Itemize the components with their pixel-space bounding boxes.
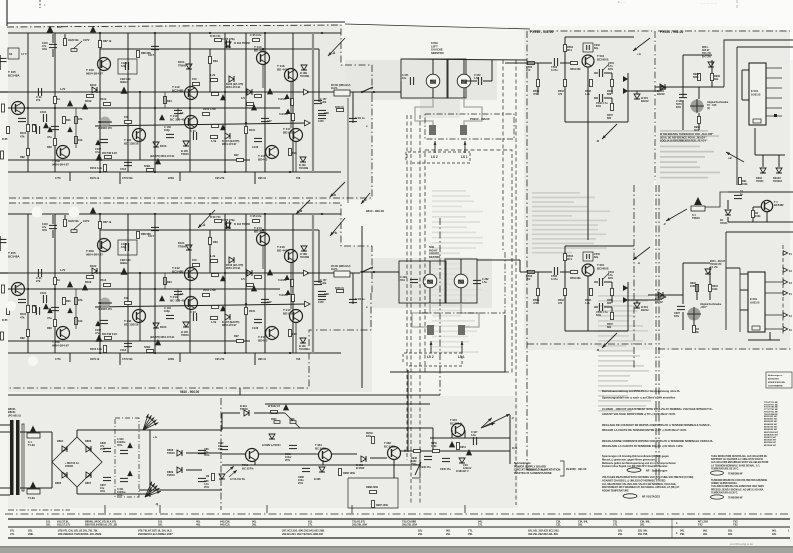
extra cap b (ch2) [35, 307, 37, 315]
svg-text:29.2%: 29.2% [331, 269, 337, 271]
svg-text:D804: D804 [57, 439, 64, 443]
dash-dot bottom border 901 [658, 348, 793, 350]
svg-text:R,30: R,30 [512, 447, 518, 450]
svg-text:1.5u: 1.5u [474, 77, 479, 80]
svg-text:10k: 10k [78, 319, 83, 323]
extra resistor d (ch1) [237, 159, 244, 162]
zener TR04Z [705, 269, 711, 274]
triangle ps a [283, 404, 289, 410]
terminal block LS1 upper [460, 125, 467, 135]
inductor L box (ch2) [334, 271, 350, 277]
svg-text:T7L: T7L [468, 529, 473, 533]
resistor R131 (ch1) [245, 127, 248, 134]
diode D809 [177, 467, 182, 473]
svg-text:B504/809 967: B504/809 967 [764, 423, 778, 426]
svg-text:C105 270p: C105 270p [222, 218, 235, 222]
resistor R154 (ch2) [203, 294, 210, 297]
capacitor C506 T 501 [598, 94, 600, 102]
IC E501 [749, 63, 766, 125]
transistor T 110 (ch1) [185, 116, 198, 129]
svg-text:C779 52k: C779 52k [122, 177, 133, 180]
resistor R150 (ch1) [337, 109, 344, 112]
cap bottom b (ch2) [124, 342, 132, 344]
capacitor C901 [679, 93, 687, 95]
svg-text:CON RISERVA: CON RISERVA [768, 385, 783, 388]
resistor R504 T 501 [564, 45, 567, 52]
svg-text:1/V: 1/V [241, 277, 245, 281]
svg-text:29L: 29L [158, 523, 163, 527]
svg-text:3.3u: 3.3u [471, 434, 476, 437]
svg-text:1u: 1u [740, 193, 743, 196]
table dash-dot rule [5, 513, 790, 515]
svg-text:C779 52k: C779 52k [122, 358, 133, 361]
table tick marks [671, 519, 673, 538]
wire X vertical [407, 370, 409, 452]
svg-text:D805: D805 [55, 481, 62, 485]
svg-text:TR040B: TR040B [300, 256, 309, 259]
wire ch2 to ps [239, 388, 241, 395]
svg-text:R83: R83 [47, 145, 52, 149]
wire vertical 7 (ch2) [245, 214, 247, 353]
svg-text:90L: 90L [772, 529, 777, 533]
svg-text:9654-172.91: 9654-172.91 [226, 266, 241, 270]
svg-text:12 V0.011 5G: 12 V0.011 5G [230, 478, 245, 481]
svg-text:9654-172.97: 9654-172.97 [222, 323, 237, 327]
wire vertical 2 (ch1) [99, 33, 101, 172]
svg-text:TENSIONI MISURATE CON VOLTMETR: TENSIONI MISURATE CON VOLTMETRO GRUNDIG [711, 479, 767, 482]
block separator double dash-dot [633, 185, 635, 370]
wire ps top rail [222, 412, 240, 414]
svg-text:47u: 47u [95, 331, 100, 335]
svg-text:R112: R112 [100, 278, 107, 282]
wire diodes up [762, 155, 764, 167]
inductor L box (ch1) [334, 90, 350, 96]
wire top supply rail (ch2) [8, 213, 341, 215]
resistor R951 [457, 443, 460, 450]
extra triangle f (ch2) [43, 303, 49, 309]
svg-text:D5 901 (9650-92.2): D5 901 (9650-92.2) [331, 85, 351, 87]
svg-text:BC548A: BC548A [8, 74, 20, 78]
elcap box dashdot [115, 418, 139, 497]
wire vertical short b (ch2) [209, 230, 211, 273]
svg-text:R97: R97 [234, 334, 239, 338]
svg-text:T1.6A: T1.6A [28, 443, 35, 447]
diode D808 [177, 450, 182, 456]
wire bridge bottom [76, 487, 78, 494]
resistor R123 (ch1) [211, 79, 218, 82]
resistor R810 [212, 474, 215, 481]
svg-text:TRA: TRA [400, 279, 405, 282]
capacitor C940 [120, 449, 128, 451]
svg-text:R150 10: R150 10 [335, 288, 345, 290]
transistor T983 [388, 447, 401, 460]
svg-text:27L: 27L [308, 523, 313, 527]
svg-text:94L: 94L [680, 529, 685, 533]
svg-text:D103: D103 [160, 325, 167, 329]
svg-text:C 94: C 94 [190, 310, 196, 314]
svg-text:C 151 1u: C 151 1u [355, 299, 365, 301]
svg-text:27L: 27L [478, 523, 483, 527]
wire ps vertical right [509, 438, 511, 464]
capacitor C94 (ch2) [192, 313, 194, 321]
svg-text:BC 548B: BC 548B [384, 444, 395, 448]
wire ps net1 [222, 453, 245, 455]
svg-text:529Ω: 529Ω [144, 345, 150, 349]
diode D10B (ch2) [301, 246, 307, 251]
svg-text:. . . . . . . . . . . . .: . . . . . . . . . . . . . [700, 2, 717, 5]
svg-text:W 8102 AT: W 8102 AT [268, 405, 281, 408]
svg-text:DESTRO: DESTRO [429, 255, 440, 259]
svg-text:(1): (1) [707, 107, 710, 110]
svg-text:C117: C117 [148, 53, 155, 57]
wire vertical partial c (ch1) [318, 49, 320, 102]
svg-text:C 94: C 94 [190, 129, 196, 133]
svg-text:MODIFICATIONS: MODIFICATIONS [768, 381, 785, 384]
svg-text:B4212: B4212 [641, 99, 649, 103]
capacitor C502 box T 601 [583, 252, 593, 261]
svg-text:C95 279: C95 279 [215, 177, 225, 180]
svg-text:BD442: BD442 [258, 339, 268, 343]
arrow -A ch2 [198, 210, 215, 228]
diode D103 (ch2) [153, 323, 159, 328]
resistor R152 (ch2) [104, 346, 107, 353]
transistor T 213 (ch2) [185, 297, 198, 310]
dash-dot box conn lower [422, 250, 505, 313]
svg-text:TR040: TR040 [167, 473, 175, 477]
svg-text:40%: 40% [100, 490, 106, 493]
wire 901 in [655, 86, 683, 88]
svg-text:27L: 27L [613, 523, 618, 527]
resistor R502 T 501 [564, 80, 567, 87]
svg-text:TR060: TR060 [178, 63, 187, 67]
resistor R143 (ch1) [247, 103, 254, 106]
wire long vertical a [347, 98, 349, 203]
svg-text:BC 328-40: BC 328-40 [170, 118, 185, 122]
svg-text:9654-172.91: 9654-172.91 [226, 85, 241, 89]
svg-text:Δ D982 a-TR044: Δ D982 a-TR044 [262, 444, 281, 447]
diode D164 (ch2) [225, 223, 231, 228]
wire T1 net [705, 192, 728, 207]
svg-text:R131: R131 [249, 309, 256, 313]
svg-text:NF VOLTAGES: NF VOLTAGES [642, 495, 660, 499]
capacitor C500 T 501 [553, 58, 555, 66]
wire vertical 5 (ch2) [189, 214, 191, 353]
svg-text:96 k: 96 k [567, 48, 573, 52]
svg-text:R900: R900 [271, 419, 277, 421]
transistor T 108 (ch1) [57, 146, 70, 159]
speaker box outline upper 2 [447, 59, 466, 98]
resistor R123 (ch2) [211, 260, 218, 263]
svg-text:24/7V: 24/7V [83, 39, 90, 42]
svg-text:R117/W 0.22: R117/W 0.22 [102, 332, 117, 336]
svg-text:925Ω: 925Ω [168, 177, 174, 180]
power dash-dot vertical 2 [439, 218, 441, 395]
resistor R507 T 601 [611, 313, 614, 320]
wire vertical 6 (ch2) [224, 214, 226, 353]
bridge rectifier outline [52, 437, 102, 487]
transistor T 212 (ch2) [185, 268, 198, 281]
sub box [348, 478, 398, 508]
resistor R604 [709, 285, 712, 292]
resistor R133 (ch1) [255, 95, 262, 98]
resistor R117 (ch1) [105, 156, 112, 159]
resistor R107 (ch1) [75, 137, 78, 144]
svg-text:R63: R63 [213, 59, 218, 63]
wire mid rail (ch1) [8, 91, 307, 93]
cap C117 (ch2) [151, 226, 159, 228]
svg-text:PRESSO, SENZA SEGNALE, AD (NF): PRESSO, SENZA SEGNALE, AD (NF) E AD UNA [711, 488, 764, 491]
diode D103 (ch1) [153, 142, 159, 147]
svg-text:BD442: BD442 [258, 158, 268, 162]
dash-dot box conn upper [425, 114, 514, 139]
transistor T 111 (ch1) [133, 129, 146, 142]
svg-text:1.5k: 1.5k [211, 320, 217, 324]
svg-text:9V.9030 - 091.00: 9V.9030 - 091.00 [566, 467, 587, 471]
capacitor C502 box T 501 [583, 43, 593, 52]
svg-text:D 984 B7 V: D 984 B7 V [456, 470, 469, 473]
svg-text:R154 1.5M: R154 1.5M [203, 107, 216, 111]
svg-text:R96 44: R96 44 [258, 358, 267, 361]
diode D102 (ch2) [92, 268, 97, 274]
wire emitter T 501 [587, 67, 589, 122]
capacitor C101 (ch1) [42, 114, 44, 122]
resistor R986 [339, 469, 342, 476]
diode B501 input [660, 84, 665, 90]
svg-text:R87 1k: R87 1k [103, 220, 112, 224]
resistor R905 [698, 117, 701, 124]
capacitor C201 [410, 278, 418, 280]
svg-text:100p: 100p [164, 128, 170, 132]
svg-text:T92: T92 [698, 523, 703, 527]
svg-text:C117: C117 [148, 234, 155, 238]
diode D1 [725, 210, 731, 215]
wire transformer out2 [20, 487, 52, 489]
svg-text:92L: 92L [728, 532, 733, 536]
LS2 terminal lower [430, 341, 432, 353]
cap input (ch1) [37, 88, 39, 96]
wire rail 4 (ch2) [8, 288, 280, 290]
svg-text:R87: R87 [57, 25, 62, 29]
svg-text:C97: C97 [267, 119, 272, 123]
capacitor C808 [198, 449, 206, 451]
capacitor C120 box (ch2) [118, 240, 137, 255]
extra resistor e (ch1) [289, 149, 292, 156]
LS1 terminal lower [461, 341, 463, 353]
svg-text:BC 557%: BC 557% [242, 466, 254, 470]
fuse Si802 [29, 482, 36, 489]
svg-text:B 0560: B 0560 [356, 466, 365, 470]
svg-text:39kHz: 39kHz [120, 80, 128, 84]
white punch hole d [28, 356, 38, 366]
resistor R506 T 501 [611, 80, 614, 87]
block 501 bottom dashdot [527, 343, 652, 345]
extra resistor c (ch2) [27, 330, 30, 337]
svg-text:9810 - 906.00: 9810 - 906.00 [180, 390, 200, 394]
svg-text:R179 1k: R179 1k [90, 358, 100, 361]
svg-text:220k: 220k [366, 436, 372, 438]
extra cap c (ch2) [261, 298, 269, 300]
svg-text:B512/99 967: B512/99 967 [764, 445, 777, 447]
resistor R117 (ch2) [105, 337, 112, 340]
resistor R89 bottom (ch1) [147, 169, 154, 172]
svg-text:R82: R82 [20, 336, 25, 340]
resistor R131 (ch2) [245, 308, 248, 315]
triangle left2 (ch1) [67, 100, 73, 106]
wire ps bottom rail [222, 464, 420, 466]
svg-text:9654-264 67: 9654-264 67 [52, 163, 69, 167]
svg-text:CLOSED - CIRCUIT ADJUSTMENT: CLOSED - CIRCUIT ADJUSTMENT WITH R556.2%… [602, 407, 713, 411]
wire vertical 4 (ch1) [154, 33, 156, 172]
svg-text:BC548 B: BC548 B [597, 266, 609, 270]
IC E501 left pins [742, 69, 749, 71]
svg-text:94L/C2L: 94L/C2L [220, 523, 231, 527]
wire emitter T 601 [587, 276, 589, 331]
svg-text:SOGLIA DI RIFERIMENTO PER „REA: SOGLIA DI RIFERIMENTO PER „READY“ [660, 140, 708, 143]
extra resistor e (ch2) [289, 330, 292, 337]
diode B601 input [658, 292, 663, 298]
svg-text:6.8p: 6.8p [121, 64, 127, 68]
capacitor C151 (ch2) [349, 298, 357, 300]
diode D106 (ch2) [229, 257, 234, 263]
svg-text:C940: C940 [218, 442, 224, 445]
speaker box outline upper [401, 59, 448, 98]
white punch hole a [32, 207, 43, 218]
svg-text:PIASTRA DI ALIMENTAZIONE: PIASTRA DI ALIMENTAZIONE [514, 471, 552, 475]
resistor R127 (ch1) [212, 125, 219, 128]
wire NF feedback top [401, 59, 527, 60]
svg-text:R109: R109 [85, 99, 92, 103]
svg-text:R152 3.3k: R152 3.3k [90, 347, 102, 351]
svg-text:TR060: TR060 [178, 244, 187, 248]
wire ps out rail [400, 450, 510, 452]
output triangle lower (ch2) [305, 301, 311, 307]
svg-text:TR034: TR034 [756, 180, 764, 183]
resistor R948 [414, 450, 421, 453]
ghost text area center box [432, 190, 483, 353]
svg-text:PX910 - 496.00: PX910 - 496.00 [470, 117, 490, 121]
wire 601 input lower [477, 259, 520, 261]
resistor R109 (ch1) [87, 95, 94, 98]
extra diode e (ch2) [247, 270, 252, 276]
svg-text:63%: 63% [676, 106, 682, 109]
capacitor C601 [677, 305, 685, 307]
capacitor C94 (ch1) [192, 132, 194, 140]
diode B983 [361, 456, 366, 462]
left input components (ch2) [7, 308, 10, 315]
svg-text:C 95 2.2u: C 95 2.2u [250, 214, 262, 218]
wire vertical 7 (ch1) [245, 33, 247, 172]
svg-text:0.47u: 0.47u [551, 68, 558, 72]
svg-text:D103: D103 [160, 144, 167, 148]
LS2 terminal upper [434, 141, 436, 153]
arrow fan upper [143, 423, 158, 430]
resistor base T 501 [571, 62, 578, 65]
svg-text:C101: C101 [40, 291, 47, 295]
svg-text:25%~: 25%~ [411, 463, 418, 466]
svg-text:680: 680 [607, 326, 612, 329]
capacitor C101 (ch2) [42, 295, 44, 303]
svg-text:(10MΩ) VERSO MASSA.: (10MΩ) VERSO MASSA. [711, 482, 738, 485]
svg-text:97k: 97k [78, 117, 83, 121]
capacitor C972 [477, 77, 479, 85]
shaded channel-1 board region [8, 24, 372, 200]
dash-dot bottom border 501 [527, 469, 545, 471]
diode D107 (ch2) [225, 314, 230, 320]
svg-text:29L P9L: 29L P9L [638, 532, 648, 536]
svg-text:150: 150 [192, 258, 197, 262]
wire vertical 8 (ch2) [264, 214, 266, 353]
triangle top-left [46, 26, 53, 33]
resistor R129 (ch2) [211, 317, 218, 320]
svg-text:680: 680 [607, 117, 612, 120]
diode D102 (ch1) [92, 87, 97, 93]
out junction arrows T 501 [623, 76, 628, 82]
top bias resistor R119 (ch2) [209, 238, 212, 245]
svg-text:D 164 TR060: D 164 TR060 [234, 222, 250, 226]
svg-text:196k: 196k [431, 445, 437, 448]
svg-text:100k: 100k [742, 183, 748, 186]
transistor T 216 (ch2) [285, 250, 298, 263]
svg-text:90L: 90L [703, 532, 708, 536]
svg-text:C136: C136 [252, 326, 259, 330]
wire vertical 2 (ch2) [99, 214, 101, 353]
svg-text:470: 470 [558, 302, 563, 305]
svg-text:150: 150 [526, 277, 531, 281]
resistor R508 T 601 [590, 289, 593, 296]
svg-text:680: 680 [607, 93, 612, 96]
wire vertical short b (ch1) [209, 49, 211, 92]
bridge diode D804 [62, 446, 67, 452]
arrow +b ch2 [330, 218, 345, 236]
svg-text:47k: 47k [20, 134, 25, 138]
loudspeaker LS2 lower [423, 274, 437, 288]
svg-text:10u: 10u [402, 77, 407, 80]
top-left box [8, 48, 19, 59]
svg-text:24/7V: 24/7V [83, 220, 90, 223]
bracket power board [560, 461, 564, 476]
svg-text:C150: C150 [318, 302, 324, 304]
svg-text:25%: 25% [298, 482, 304, 485]
dashed cable lower [403, 353, 462, 362]
svg-text:C945 47u: C945 47u [440, 468, 451, 471]
IC E501 right pins [766, 68, 782, 117]
svg-text:REGLER LA CHUTE DE TENSION: REGLER LA CHUTE DE TENSION ENTRE ◁ ET ◁ … [602, 428, 687, 432]
white punch hole c [6, 301, 16, 311]
channel-1 dash-dot border [7, 25, 372, 95]
resistor R154 (ch1) [203, 113, 210, 116]
svg-text:40%: 40% [42, 48, 48, 51]
output triangle upper (ch1) [304, 89, 310, 95]
extra resistor d (ch2) [237, 340, 244, 343]
svg-text:NF - Spannungen: NF - Spannungen [646, 469, 668, 473]
resistor R2 [752, 211, 755, 218]
svg-text:TR040: TR040 [181, 333, 189, 337]
wire top rail T 601 [565, 245, 634, 247]
diode D502 [760, 168, 766, 173]
svg-text:C 151 1u: C 151 1u [355, 118, 365, 120]
svg-text:49L: 49L [196, 523, 201, 527]
shaded speaker region lower [372, 258, 492, 308]
dashed vertical pair [406, 115, 408, 460]
svg-text:D5 901 (9650-92.2): D5 901 (9650-92.2) [331, 266, 351, 268]
adjust screw blob [691, 100, 704, 113]
resistor R120 (ch1) [215, 39, 222, 42]
wire rail 4 (ch1) [8, 107, 280, 109]
switch lower [362, 267, 373, 272]
svg-text:470: 470 [558, 93, 563, 96]
svg-text:R91: R91 [66, 118, 71, 122]
wire vertical 1 (ch1) [54, 33, 56, 172]
